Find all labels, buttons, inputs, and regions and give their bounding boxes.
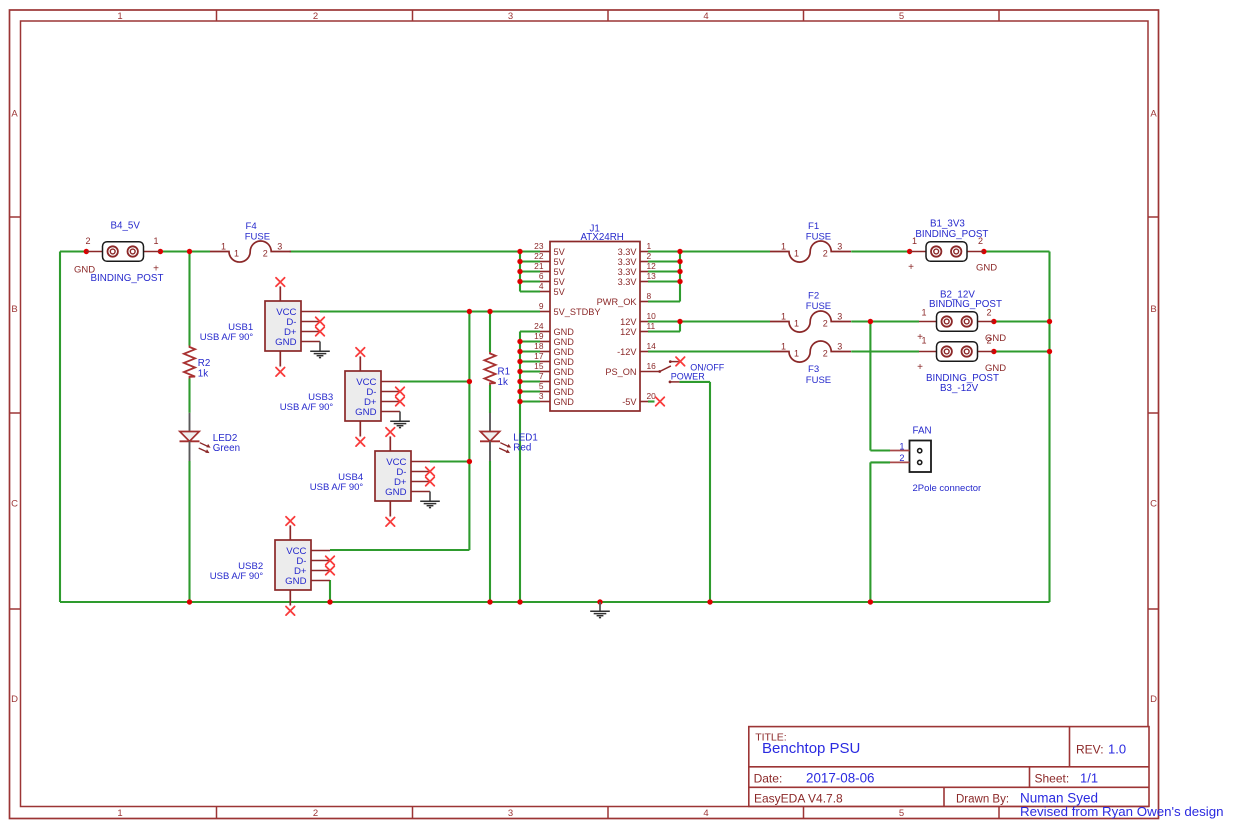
- wire B3 to right rail: [994, 350, 1050, 352]
- wire R1/LED1 branch x=490: [489, 312, 491, 603]
- label USB1 USB A/F 90°: [200, 322, 254, 343]
- label B4_5V BINDING_POST: [91, 221, 164, 285]
- svg-text:3.3V: 3.3V: [618, 267, 638, 277]
- svg-text:1: 1: [921, 308, 926, 318]
- connector USB4: [375, 428, 434, 526]
- wire -12V row to F3: [648, 350, 770, 352]
- svg-text:22: 22: [534, 251, 544, 261]
- fuse F2: [770, 311, 851, 332]
- IC connector J1 ATX24RH: [534, 241, 659, 411]
- svg-text:-5V: -5V: [622, 397, 637, 407]
- svg-text:13: 13: [647, 271, 657, 281]
- pin numbers FAN 1/2: [899, 441, 904, 463]
- title block: [749, 727, 1149, 807]
- label LED2 Green: [213, 433, 240, 454]
- svg-text:5V: 5V: [554, 287, 566, 297]
- svg-text:D: D: [1150, 694, 1157, 705]
- svg-text:3.3V: 3.3V: [618, 257, 638, 267]
- note Revised from Ryan Owen's design: [1020, 804, 1224, 819]
- binding post B3_-12V: [919, 342, 994, 362]
- svg-text:GND: GND: [275, 337, 296, 348]
- svg-text:5: 5: [899, 808, 904, 819]
- binding post B4_5V: [86, 242, 160, 262]
- svg-text:1: 1: [899, 441, 904, 451]
- svg-text:5V: 5V: [554, 257, 566, 267]
- svg-text:1k: 1k: [498, 377, 508, 388]
- wire B2 to right rail: [994, 320, 1050, 322]
- svg-text:USB A/F 90°: USB A/F 90°: [310, 482, 364, 493]
- svg-text:FUSE: FUSE: [806, 375, 831, 386]
- svg-text:A: A: [11, 109, 18, 120]
- label FAN: [913, 426, 932, 437]
- svg-text:5V_STDBY: 5V_STDBY: [554, 307, 601, 317]
- svg-text:3: 3: [837, 242, 842, 252]
- svg-text:2: 2: [823, 318, 828, 328]
- fuse F1: [770, 241, 851, 262]
- svg-text:GND: GND: [554, 367, 575, 377]
- svg-text:1: 1: [153, 236, 158, 246]
- connector USB1: [265, 278, 324, 376]
- svg-text:PWR_OK: PWR_OK: [597, 297, 638, 307]
- wire 12V pins to bus: [648, 322, 770, 332]
- ground symbol at USB4 GND pin: [420, 492, 440, 508]
- svg-text:1: 1: [117, 11, 122, 22]
- svg-text:D: D: [11, 694, 18, 705]
- svg-text:5V: 5V: [554, 247, 566, 257]
- svg-text:4: 4: [703, 11, 708, 22]
- svg-text:PS_ON: PS_ON: [605, 367, 636, 377]
- net label POWER: [671, 372, 706, 382]
- wire POWER net from switch to bottom rail: [679, 382, 710, 602]
- svg-text:6: 6: [539, 271, 544, 281]
- svg-text:B1_3V3: B1_3V3: [930, 219, 965, 230]
- svg-text:FUSE: FUSE: [806, 232, 831, 243]
- svg-text:GND: GND: [285, 576, 306, 587]
- wire FAN pin 2 to bottom rail: [870, 462, 890, 602]
- svg-text:19: 19: [534, 331, 544, 341]
- svg-text:Revised from Ryan Owen's desig: Revised from Ryan Owen's design: [1020, 804, 1224, 819]
- svg-text:4: 4: [539, 281, 544, 291]
- svg-text:GND: GND: [976, 263, 997, 274]
- label R1 value 1k: [498, 367, 511, 389]
- label USB3 USB A/F 90°: [280, 392, 334, 413]
- svg-text:21: 21: [534, 261, 544, 271]
- svg-text:F4: F4: [246, 221, 258, 232]
- svg-text:1k: 1k: [198, 369, 208, 380]
- wire J1 left 5V bus x=520: [520, 252, 540, 292]
- connector USB3: [345, 348, 404, 446]
- label F2 FUSE: [806, 291, 831, 313]
- svg-text:A: A: [1150, 109, 1157, 120]
- svg-text:1: 1: [221, 242, 226, 252]
- label R2 value 1k: [198, 358, 211, 380]
- svg-text:9: 9: [539, 301, 544, 311]
- svg-text:2: 2: [823, 348, 828, 358]
- svg-text:Green: Green: [213, 443, 240, 454]
- svg-text:23: 23: [534, 241, 544, 251]
- svg-text:2: 2: [899, 453, 904, 463]
- svg-text:GND: GND: [385, 487, 406, 498]
- pin numbers B2 1/2: [921, 308, 991, 318]
- label USB2 USB A/F 90°: [210, 561, 264, 582]
- svg-text:GND: GND: [554, 357, 575, 367]
- svg-text:REV:: REV:: [1076, 743, 1104, 757]
- ground symbol at USB1 GND pin: [310, 342, 330, 358]
- svg-text:3.3V: 3.3V: [618, 277, 638, 287]
- svg-text:2017-08-06: 2017-08-06: [806, 771, 875, 786]
- label B2_12V BINDING_POST: [929, 290, 1002, 311]
- wire USB2 VCC to bus: [330, 549, 469, 551]
- fuse F3: [770, 341, 851, 362]
- svg-text:2: 2: [986, 336, 991, 346]
- svg-text:-12V: -12V: [617, 347, 637, 357]
- svg-text:USB A/F 90°: USB A/F 90°: [200, 332, 254, 343]
- label 2Pole connector: [913, 483, 982, 494]
- svg-text:C: C: [1150, 499, 1157, 510]
- svg-text:F1: F1: [808, 221, 819, 232]
- svg-text:1: 1: [781, 342, 786, 352]
- svg-text:2: 2: [647, 251, 652, 261]
- ground symbol on bottom rail: [590, 602, 610, 618]
- label F1 FUSE: [806, 221, 831, 243]
- resistor R1: [484, 352, 495, 385]
- svg-text:2: 2: [263, 248, 268, 258]
- svg-text:12: 12: [647, 261, 657, 271]
- labels B4 GND and +: [74, 264, 159, 276]
- svg-text:GND: GND: [554, 377, 575, 387]
- wire 3.3V rail to F1: [680, 250, 770, 252]
- connector USB2: [275, 517, 334, 615]
- svg-text:Benchtop PSU: Benchtop PSU: [762, 740, 860, 757]
- svg-text:12V: 12V: [620, 317, 637, 327]
- label USB4 USB A/F 90°: [310, 472, 364, 493]
- wire B1 to right rail: [984, 250, 1050, 252]
- svg-text:GND: GND: [355, 407, 376, 418]
- svg-text:2Pole connector: 2Pole connector: [913, 483, 982, 494]
- svg-text:GND: GND: [554, 327, 575, 337]
- svg-text:1: 1: [234, 248, 239, 258]
- svg-text:BINDING_POST: BINDING_POST: [929, 299, 1002, 310]
- svg-text:3: 3: [837, 342, 842, 352]
- svg-text:FAN: FAN: [913, 426, 932, 437]
- wire 5V top rail from B4 to F4 and J1 pin 23: [60, 250, 540, 252]
- pin numbers B3 1/2: [921, 336, 991, 346]
- LED LED1: [480, 413, 511, 461]
- svg-text:FUSE: FUSE: [806, 301, 831, 312]
- svg-text:4: 4: [703, 808, 708, 819]
- ground symbol at USB3 GND pin: [390, 412, 410, 428]
- svg-text:+: +: [917, 362, 923, 373]
- svg-text:Sheet:: Sheet:: [1035, 772, 1070, 786]
- label B3_-12V BINDING_POST: [926, 373, 999, 394]
- LED LED2: [180, 413, 211, 461]
- svg-text:C: C: [11, 499, 18, 510]
- svg-text:FUSE: FUSE: [245, 232, 270, 243]
- svg-text:1: 1: [794, 318, 799, 328]
- svg-text:+: +: [908, 262, 914, 273]
- svg-text:5: 5: [539, 381, 544, 391]
- binding post B2_12V: [919, 312, 994, 332]
- svg-text:GND: GND: [554, 337, 575, 347]
- svg-text:USB A/F 90°: USB A/F 90°: [210, 571, 264, 582]
- svg-text:USB A/F 90°: USB A/F 90°: [280, 402, 334, 413]
- wire USB3 VCC to bus: [400, 380, 469, 382]
- wire right rail x=1049.5: [1048, 252, 1050, 603]
- svg-text:GND: GND: [554, 397, 575, 407]
- pin numbers B4 2/1: [85, 236, 158, 246]
- pin numbers B1 1/2: [912, 236, 983, 246]
- svg-text:1: 1: [921, 336, 926, 346]
- svg-text:17: 17: [534, 351, 544, 361]
- svg-text:F2: F2: [808, 291, 819, 302]
- fuse F4: [210, 241, 291, 262]
- labels B3 + and GND: [917, 362, 1006, 374]
- wire VCC bus x=469.4: [468, 312, 470, 551]
- svg-text:POWER: POWER: [671, 372, 706, 382]
- svg-text:3: 3: [508, 808, 513, 819]
- wire USB4 VCC to bus: [430, 460, 469, 462]
- label F4 FUSE: [245, 221, 270, 243]
- svg-text:1: 1: [647, 241, 652, 251]
- no-connect X on J1 pin 20: [656, 397, 665, 406]
- svg-text:1: 1: [117, 808, 122, 819]
- resistor R2: [184, 346, 195, 379]
- net label ON/OFF: [690, 363, 724, 373]
- svg-text:7: 7: [539, 371, 544, 381]
- svg-text:R1: R1: [498, 367, 511, 378]
- wire J1 3.3V pins to bus x=680: [648, 252, 680, 302]
- svg-text:BINDING_POST: BINDING_POST: [915, 229, 988, 240]
- svg-text:20: 20: [647, 391, 657, 401]
- label J1 ATX24RH: [581, 224, 624, 244]
- svg-text:24: 24: [534, 321, 544, 331]
- svg-text:3: 3: [837, 312, 842, 322]
- svg-text:Drawn By:: Drawn By:: [956, 794, 1009, 806]
- svg-text:1.0: 1.0: [1108, 742, 1126, 757]
- svg-text:2: 2: [313, 808, 318, 819]
- svg-text:3: 3: [277, 242, 282, 252]
- wire F3 to B3: [851, 350, 919, 352]
- svg-text:8: 8: [647, 291, 652, 301]
- svg-text:1: 1: [781, 242, 786, 252]
- svg-text:Date:: Date:: [754, 772, 783, 786]
- svg-text:B3_-12V: B3_-12V: [940, 383, 979, 394]
- wire left GND rail vertical x=60: [59, 252, 61, 603]
- svg-text:B: B: [11, 304, 17, 315]
- svg-text:15: 15: [534, 361, 544, 371]
- svg-text:3.3V: 3.3V: [618, 247, 638, 257]
- svg-text:11: 11: [647, 321, 656, 331]
- binding post B1_3V3: [910, 242, 984, 262]
- svg-text:10: 10: [647, 311, 657, 321]
- svg-text:5: 5: [899, 11, 904, 22]
- switch SW ON/OFF: [658, 357, 684, 383]
- svg-text:R2: R2: [198, 358, 211, 369]
- svg-text:14: 14: [647, 341, 657, 351]
- svg-text:B4_5V: B4_5V: [111, 221, 141, 232]
- svg-text:3: 3: [508, 11, 513, 22]
- svg-text:16: 16: [647, 361, 657, 371]
- connector FAN: [890, 441, 931, 473]
- svg-text:EasyEDA V4.7.8: EasyEDA V4.7.8: [754, 792, 843, 806]
- svg-text:BINDING_POST: BINDING_POST: [91, 273, 164, 284]
- svg-text:GND: GND: [554, 347, 575, 357]
- svg-text:B: B: [1150, 304, 1156, 315]
- wire F2 to B2: [851, 320, 919, 322]
- svg-text:1: 1: [794, 348, 799, 358]
- label LED1 Red: [513, 433, 538, 454]
- wire 12V branch down to FAN pin 1: [870, 322, 890, 451]
- svg-text:18: 18: [534, 341, 544, 351]
- svg-text:1: 1: [794, 248, 799, 258]
- wire stub -5V pin 20: [648, 400, 655, 402]
- label F3 FUSE: [806, 364, 831, 386]
- labels B1 + and GND: [908, 262, 997, 274]
- svg-text:2: 2: [313, 11, 318, 22]
- svg-text:GND: GND: [554, 387, 575, 397]
- svg-text:5V: 5V: [554, 277, 566, 287]
- svg-text:12V: 12V: [620, 327, 637, 337]
- svg-text:3: 3: [539, 391, 544, 401]
- wire bottom GND rail: [60, 601, 1050, 603]
- label B1_3V3 BINDING_POST: [915, 219, 988, 241]
- wire J1 left GND bus x=520: [520, 332, 540, 603]
- wire USB2 GND to bottom rail: [329, 580, 331, 602]
- svg-text:F3: F3: [808, 364, 819, 375]
- svg-text:Red: Red: [513, 443, 531, 454]
- svg-text:5V: 5V: [554, 267, 566, 277]
- wire branch down to R2/LED2 at x=189.5: [188, 252, 190, 603]
- wire 5V_STDBY row from USB1 VCC to J1 pin 9: [320, 310, 540, 312]
- labels B2 + and GND: [917, 332, 1006, 344]
- wire F1 to B1: [851, 250, 909, 252]
- svg-text:1: 1: [781, 312, 786, 322]
- svg-text:2: 2: [85, 236, 90, 246]
- svg-text:2: 2: [823, 248, 828, 258]
- svg-text:1/1: 1/1: [1080, 771, 1098, 786]
